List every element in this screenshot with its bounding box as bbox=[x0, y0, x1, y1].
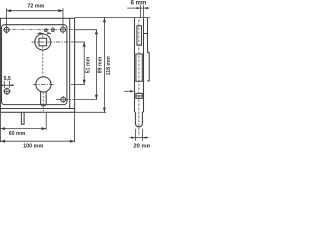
cylinder vertical centerline bbox=[42, 92, 44, 111]
svg-text:20 mm: 20 mm bbox=[133, 144, 150, 150]
svg-text:72 mm: 72 mm bbox=[27, 4, 44, 10]
screw hole BR bbox=[61, 96, 66, 103]
backplate outline bbox=[0, 18, 74, 112]
backplate bottom fold line bbox=[0, 108, 74, 110]
dimension 5,5 bottom-left screw bbox=[0, 81, 14, 88]
svg-text:118 mm: 118 mm bbox=[106, 56, 112, 75]
label 6 mm bbox=[131, 1, 147, 7]
svg-text:ø 8: ø 8 bbox=[44, 27, 55, 34]
label 72 mm bbox=[27, 4, 44, 10]
svg-text:5,5: 5,5 bbox=[3, 76, 11, 82]
spindle hole circle bbox=[35, 34, 51, 50]
screw hole TL bbox=[3, 27, 10, 32]
cylinder body bbox=[41, 92, 47, 106]
label 100 mm bbox=[23, 144, 43, 150]
bolt bar below faceplate bbox=[21, 112, 24, 124]
spindle vertical centerline bbox=[42, 35, 44, 76]
svg-text:100 mm: 100 mm bbox=[23, 144, 43, 150]
dimension 6mm top of side view bbox=[127, 5, 149, 17]
screw hole TR bbox=[61, 27, 66, 32]
faceplate bottom edge extension bbox=[75, 111, 107, 113]
top screws centerline bbox=[4, 29, 74, 31]
side view bottom edge bits bbox=[135, 111, 144, 113]
label 5,5 bbox=[3, 76, 11, 82]
label 89 mm (rotated) bbox=[98, 56, 104, 73]
dimension 89mm right bbox=[75, 30, 98, 100]
svg-text:60 mm: 60 mm bbox=[9, 131, 26, 137]
dimension 20mm bottom of side view bbox=[130, 129, 149, 141]
label 60 mm bbox=[9, 131, 26, 137]
projection line to side view bbox=[75, 17, 150, 19]
side view slot 2 bbox=[136, 54, 142, 81]
svg-text:51 mm: 51 mm bbox=[85, 56, 91, 73]
backplate right fold line bbox=[69, 18, 71, 108]
svg-text:89 mm: 89 mm bbox=[98, 56, 104, 73]
dimension 51mm right bbox=[71, 42, 86, 85]
bottom-right screw centerline bbox=[56, 99, 74, 101]
spindle horizontal centerline bbox=[32, 41, 71, 43]
side view left edge bbox=[134, 18, 136, 112]
dimension 118mm right bbox=[103, 18, 106, 113]
label diameter 8 bbox=[44, 27, 55, 34]
label 20 mm bbox=[133, 144, 151, 150]
lock case outline bbox=[2, 25, 67, 105]
cylinder circle bbox=[36, 77, 51, 92]
dimension 100mm bottom bbox=[0, 113, 74, 143]
svg-text:6 mm: 6 mm bbox=[131, 1, 147, 7]
spindle square 8mm bbox=[39, 38, 47, 46]
dimension 72mm top bbox=[7, 8, 64, 33]
side view bolt U bottom bbox=[135, 112, 142, 127]
leader arrow at side view left bbox=[124, 90, 134, 92]
side view right edge bbox=[143, 18, 145, 112]
far right bracket flange bbox=[147, 18, 149, 81]
dimension 60mm bottom bbox=[0, 113, 46, 130]
label 51 mm (rotated) bbox=[85, 56, 91, 73]
side view slot 3 bbox=[136, 93, 142, 98]
label 118 mm (rotated) bbox=[106, 56, 112, 75]
side view slot 1 bbox=[137, 26, 142, 45]
side view centerline bbox=[138, 20, 140, 137]
connector side view to flange bbox=[144, 33, 148, 35]
cylinder horizontal centerline bbox=[33, 84, 54, 86]
leader arrow for diameter 8 bbox=[37, 32, 52, 34]
screw hole BL bbox=[3, 87, 10, 95]
